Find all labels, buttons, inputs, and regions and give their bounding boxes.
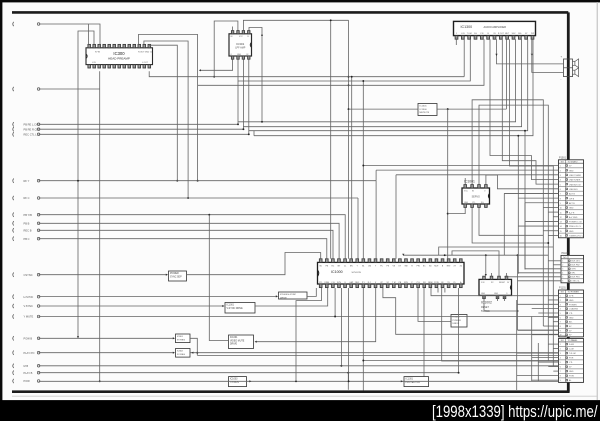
svg-text:PW: PW xyxy=(531,33,534,35)
svg-text:MUTE TR: MUTE TR xyxy=(420,112,430,114)
svg-text:LNB BUS CK: LNB BUS CK xyxy=(569,184,582,186)
svg-text:BLK PB2: BLK PB2 xyxy=(572,265,581,267)
svg-text:L OUT: L OUT xyxy=(142,62,149,64)
svg-text:POWER: POWER xyxy=(170,273,179,275)
svg-text:TX MOS: TX MOS xyxy=(230,382,239,384)
svg-text:LNB BUS: LNB BUS xyxy=(569,189,578,191)
svg-text:VIDEO MUTE: VIDEO MUTE xyxy=(230,340,245,342)
svg-text:8: 8 xyxy=(560,376,561,378)
svg-text:9: 9 xyxy=(560,203,561,205)
svg-text:GND: GND xyxy=(569,317,574,319)
svg-text:CIF B: CIF B xyxy=(569,198,575,200)
svg-text:2: 2 xyxy=(560,170,561,172)
svg-text:3: 3 xyxy=(560,175,561,177)
svg-text:A-V GND: A-V GND xyxy=(569,216,578,219)
svg-text:12: 12 xyxy=(560,217,562,219)
svg-text:SYSCON: SYSCON xyxy=(352,272,362,274)
svg-text:X2: X2 xyxy=(460,266,462,268)
svg-text:NO: NO xyxy=(561,340,565,342)
svg-text:P1001: P1001 xyxy=(559,156,567,159)
svg-text:CL: CL xyxy=(344,266,346,268)
svg-text:AUT B: AUT B xyxy=(569,193,576,196)
svg-text:BLK CE1: BLK CE1 xyxy=(572,261,581,263)
svg-text:O2: O2 xyxy=(246,54,248,56)
svg-text:NO: NO xyxy=(561,292,565,294)
svg-text:PLAY B: PLAY B xyxy=(24,371,33,375)
svg-text:REC B: REC B xyxy=(24,228,32,232)
svg-text:[1998x1339] https://upic.me/: [1998x1339] https://upic.me/ xyxy=(432,402,598,421)
svg-text:14: 14 xyxy=(560,226,562,228)
svg-text:L IN: L IN xyxy=(92,62,96,64)
svg-text:PL: PL xyxy=(454,282,456,284)
svg-text:6: 6 xyxy=(560,189,561,191)
svg-text:P1100: P1100 xyxy=(562,252,569,255)
svg-text:Y MUTE: Y MUTE xyxy=(24,315,34,319)
svg-text:H.SYNC: H.SYNC xyxy=(24,295,34,299)
svg-text:7: 7 xyxy=(560,322,561,324)
svg-text:1: 1 xyxy=(560,296,561,298)
svg-text:7: 7 xyxy=(560,194,561,196)
svg-text:HEAD PREAMP: HEAD PREAMP xyxy=(108,57,130,61)
svg-text:BLK PB1: BLK PB1 xyxy=(572,277,581,279)
svg-text:IC1001: IC1001 xyxy=(227,305,235,307)
svg-text:4: 4 xyxy=(560,358,561,360)
svg-text:AFT B: AFT B xyxy=(569,202,575,205)
svg-text:IC802: IC802 xyxy=(177,351,184,353)
svg-text:4: 4 xyxy=(560,309,561,311)
svg-text:9: 9 xyxy=(560,380,561,382)
svg-text:9: 9 xyxy=(560,330,561,332)
svg-text:M B: M B xyxy=(24,364,29,368)
svg-text:DRIVE: DRIVE xyxy=(280,297,287,299)
svg-text:IC801: IC801 xyxy=(177,336,184,338)
svg-text:REC: REC xyxy=(355,282,360,284)
svg-text:2: 2 xyxy=(560,349,561,351)
svg-text:P1101: P1101 xyxy=(559,287,566,290)
svg-text:POWER: POWER xyxy=(453,320,462,322)
svg-text:9V IN: 9V IN xyxy=(95,51,101,53)
svg-text:10: 10 xyxy=(560,208,562,210)
svg-text:S2: S2 xyxy=(387,282,389,284)
svg-text:GND: GND xyxy=(237,54,242,56)
svg-text:SYR: SYR xyxy=(572,269,577,271)
svg-text:POW B: POW B xyxy=(24,336,33,340)
svg-text:SYN: SYN xyxy=(337,282,342,284)
svg-text:V.SYNC: V.SYNC xyxy=(24,304,34,308)
svg-text:LPF AMP: LPF AMP xyxy=(235,47,246,50)
svg-text:2: 2 xyxy=(562,265,563,267)
svg-text:NO: NO xyxy=(561,162,565,164)
svg-text:POW: POW xyxy=(24,379,31,383)
svg-text:GND: GND xyxy=(481,293,486,295)
svg-text:GND: GND xyxy=(569,300,574,302)
svg-text:6: 6 xyxy=(560,367,561,369)
svg-text:1: 1 xyxy=(560,166,561,168)
svg-text:IC1001: IC1001 xyxy=(230,337,238,339)
svg-text:AUDIO AMPLIFIER: AUDIO AMPLIFIER xyxy=(484,25,507,29)
svg-text:RESET: RESET xyxy=(499,282,506,284)
svg-text:TO POWER: TO POWER xyxy=(568,292,580,294)
svg-text:5: 5 xyxy=(560,313,561,315)
svg-text:POWER: POWER xyxy=(569,304,577,306)
svg-text:T LIM: T LIM xyxy=(467,33,472,35)
svg-text:GND: GND xyxy=(494,293,499,295)
svg-text:DRIVE: DRIVE xyxy=(230,344,237,346)
svg-text:REC CTL L: REC CTL L xyxy=(24,132,38,136)
svg-text:TUNER (VOL C): TUNER (VOL C) xyxy=(569,236,584,238)
svg-text:IC1300: IC1300 xyxy=(420,109,428,111)
svg-text:PB C: PB C xyxy=(24,237,30,241)
svg-text:IC1000: IC1000 xyxy=(331,270,343,274)
svg-text:PB RE R.CH: PB RE R.CH xyxy=(24,127,39,131)
svg-text:R OUT: R OUT xyxy=(498,33,505,35)
svg-text:IC1003: IC1003 xyxy=(230,379,238,381)
svg-text:13: 13 xyxy=(560,222,562,224)
svg-text:PB B: PB B xyxy=(24,221,30,225)
svg-text:3: 3 xyxy=(560,353,561,355)
svg-text:S-0M: S-0M xyxy=(569,344,574,346)
svg-text:5: 5 xyxy=(560,184,561,186)
svg-text:15: 15 xyxy=(560,231,562,233)
svg-text:PB RE L.CH: PB RE L.CH xyxy=(24,122,39,126)
svg-text:GND: GND xyxy=(569,208,574,210)
svg-text:A-V R: A-V R xyxy=(569,211,575,214)
svg-text:GND: GND xyxy=(569,231,574,233)
svg-text:LYNC CL: LYNC CL xyxy=(572,281,581,283)
svg-text:POWER C CK: POWER C CK xyxy=(569,222,583,224)
svg-text:PROTECTOR: PROTECTOR xyxy=(406,382,421,384)
svg-text:POW: POW xyxy=(434,282,439,284)
svg-text:4: 4 xyxy=(560,180,561,182)
svg-text:PW: PW xyxy=(417,266,420,268)
svg-text:SG2: SG2 xyxy=(512,33,516,35)
svg-text:CTL: CTL xyxy=(472,202,475,204)
svg-text:CSYNC: CSYNC xyxy=(24,273,33,277)
svg-text:16: 16 xyxy=(560,236,562,238)
svg-text:RF Y: RF Y xyxy=(24,179,30,183)
svg-text:H.OUT GND: H.OUT GND xyxy=(138,51,150,53)
svg-text:IC1300: IC1300 xyxy=(461,25,473,29)
svg-text:6: 6 xyxy=(560,317,561,319)
svg-text:IC1001: IC1001 xyxy=(464,179,475,183)
svg-text:7: 7 xyxy=(560,371,561,373)
svg-text:IC301: IC301 xyxy=(236,42,244,46)
svg-text:GND: GND xyxy=(464,202,469,204)
svg-text:T-R 0M: T-R 0M xyxy=(569,353,576,355)
svg-text:SERVO: SERVO xyxy=(472,196,480,199)
svg-text:IC1002: IC1002 xyxy=(481,301,492,305)
svg-text:REW: REW xyxy=(428,282,433,284)
svg-text:PB Y/B: PB Y/B xyxy=(24,213,33,217)
svg-text:9V REG: 9V REG xyxy=(177,339,185,341)
svg-text:POR: POR xyxy=(569,358,574,360)
svg-text:1: 1 xyxy=(456,33,457,35)
svg-text:RF C: RF C xyxy=(24,196,30,200)
svg-text:V-SYNC DRIVE: V-SYNC DRIVE xyxy=(227,308,244,310)
svg-text:IC1000 H-SYNC: IC1000 H-SYNC xyxy=(280,294,296,296)
svg-text:5V REG: 5V REG xyxy=(177,354,185,356)
svg-text:IC1301: IC1301 xyxy=(420,106,428,108)
svg-text:5: 5 xyxy=(562,277,563,279)
svg-text:PREG CK CL: PREG CK CL xyxy=(569,226,582,228)
svg-text:PLAY PO: PLAY PO xyxy=(24,351,35,355)
svg-text:CL: CL xyxy=(247,36,249,38)
svg-text:P1102: P1102 xyxy=(559,335,566,338)
svg-text:TO VIDEO: TO VIDEO xyxy=(568,162,578,164)
svg-text:LNB TUNER: LNB TUNER xyxy=(569,180,581,182)
svg-text:1: 1 xyxy=(560,344,561,346)
svg-text:8: 8 xyxy=(560,198,561,200)
svg-text:8: 8 xyxy=(560,326,561,328)
svg-text:1-0M: 1-0M xyxy=(569,349,574,351)
svg-text:-: - xyxy=(561,79,562,82)
svg-text:3: 3 xyxy=(562,269,563,271)
svg-text:LOADING: LOADING xyxy=(569,308,578,311)
svg-text:4: 4 xyxy=(562,273,563,275)
svg-text:IC1301: IC1301 xyxy=(406,379,414,381)
svg-text:1: 1 xyxy=(562,261,563,263)
svg-text:GND: GND xyxy=(569,170,574,172)
svg-text:11: 11 xyxy=(560,212,562,214)
svg-text:5: 5 xyxy=(560,362,561,364)
svg-text:DWN: DWN xyxy=(325,282,330,284)
svg-text:CTL: CTL xyxy=(319,282,323,284)
svg-text:TO PANEL: TO PANEL xyxy=(568,339,579,342)
svg-text:NO: NO xyxy=(563,257,567,259)
svg-text:BL: BL xyxy=(362,266,364,268)
svg-text:SYNC SEP: SYNC SEP xyxy=(170,276,182,278)
svg-text:SW: SW xyxy=(404,266,407,268)
svg-text:GND: GND xyxy=(569,371,574,373)
svg-text:3: 3 xyxy=(560,304,561,306)
svg-text:5V B: 5V B xyxy=(569,296,574,298)
svg-text:POW: POW xyxy=(569,376,574,378)
svg-text:RESET: RESET xyxy=(481,306,490,309)
svg-text:IC300: IC300 xyxy=(113,51,125,56)
svg-text:LNB POWER: LNB POWER xyxy=(569,175,582,177)
svg-text:2: 2 xyxy=(560,300,561,302)
svg-text:CM: CM xyxy=(368,266,371,268)
svg-text:CYL: CYL xyxy=(416,282,420,284)
svg-text:6: 6 xyxy=(562,281,563,283)
svg-text:MG: MG xyxy=(518,33,522,35)
svg-text:T M: T M xyxy=(392,282,396,284)
